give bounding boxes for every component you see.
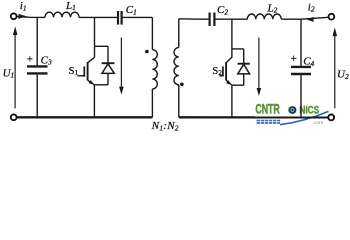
svg-text:+: + [291, 53, 297, 65]
svg-text:i1: i1 [20, 0, 27, 12]
svg-text:S2: S2 [212, 66, 222, 77]
svg-text:i2: i2 [308, 1, 315, 13]
svg-text:+: + [27, 54, 33, 66]
svg-text:C4: C4 [303, 56, 314, 68]
svg-text:N1:N2: N1:N2 [151, 120, 179, 131]
svg-text:C3: C3 [41, 54, 52, 66]
svg-text:NICS: NICS [299, 104, 319, 116]
svg-text:C1: C1 [126, 4, 137, 16]
svg-text:C2: C2 [217, 4, 228, 16]
svg-text:L1: L1 [65, 0, 76, 12]
svg-text:S1: S1 [69, 66, 79, 77]
svg-text:.com: .com [313, 121, 323, 126]
svg-text:L2: L2 [267, 2, 278, 14]
svg-text:U1: U1 [3, 67, 15, 79]
svg-text:U2: U2 [337, 69, 349, 81]
svg-text:CNTR: CNTR [255, 103, 279, 117]
